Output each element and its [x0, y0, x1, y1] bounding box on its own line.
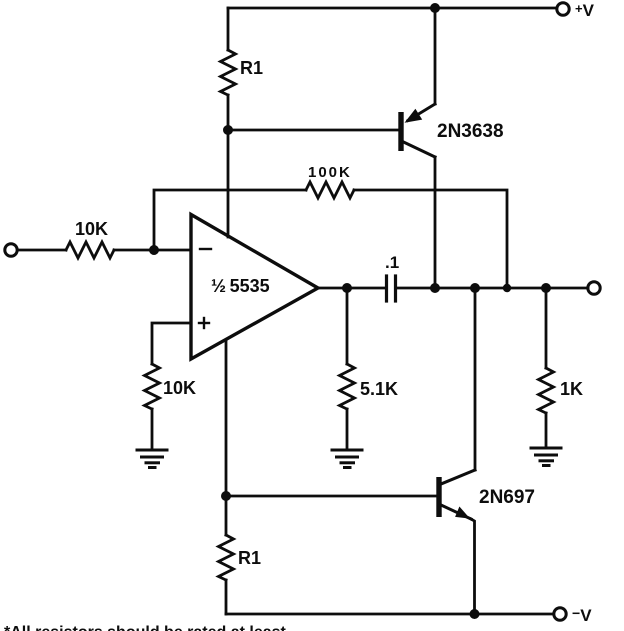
node junction input/feedback [149, 245, 159, 255]
node junction R1 bottom / base [221, 491, 231, 501]
ground (1K) [531, 448, 561, 466]
node junction top rail / Q1 emitter [430, 3, 440, 13]
wire op-amp plus input [152, 323, 190, 364]
wire R1 bottom to rail [225, 580, 228, 614]
node junction feedback [503, 284, 511, 292]
wire op-amp V- pin down [225, 341, 228, 535]
node junction Q2 emitter / rail [470, 609, 480, 619]
op-amp U1 half 5535 [191, 215, 318, 360]
resistor 10K (input) [66, 242, 114, 258]
svg-text:1K: 1K [560, 379, 583, 399]
wire bottom supply rail [226, 613, 553, 616]
node junction Q2 collector [470, 283, 480, 293]
wire 5.1K to ground [346, 409, 349, 449]
op-amp plus sign [199, 318, 209, 328]
svg-text:−V: −V [572, 605, 592, 625]
terminal -V [554, 608, 566, 620]
ground (10K) [137, 450, 167, 468]
svg-text:*All resistors should be rated: *All resistors should be rated at least.… [4, 624, 299, 631]
resistor R1 (bottom) [219, 535, 234, 580]
wire 10K to op-amp minus input [114, 249, 190, 252]
transistor Q2 2N697 [436, 288, 475, 614]
wire 2N3638 base line [228, 129, 398, 132]
node junction output/5.1K [342, 283, 352, 293]
terminal output [588, 282, 600, 294]
op-amp minus sign [200, 248, 211, 250]
node junction R1/base [223, 125, 233, 135]
wire 1K top [545, 288, 548, 368]
svg-text:½ 5535: ½ 5535 [211, 276, 270, 296]
resistor 100K [306, 182, 354, 198]
svg-text:5.1K: 5.1K [360, 379, 398, 399]
wire 100K feedback line left [154, 190, 306, 250]
wire 5.1K top [346, 288, 349, 364]
svg-text:R1: R1 [238, 548, 261, 568]
svg-text:100K: 100K [308, 164, 352, 181]
wire 2N697 base line [226, 495, 436, 498]
wire 10K to ground [151, 409, 154, 449]
capacitor .1 [387, 276, 396, 301]
svg-text:2N697: 2N697 [479, 487, 535, 508]
wire input to 10K [18, 249, 67, 252]
ground (5.1K) [332, 450, 362, 468]
wire 1K to ground [545, 413, 548, 447]
svg-text:.1: .1 [385, 253, 399, 272]
wire 100K right + down to output [354, 190, 507, 288]
resistor 5.1K [340, 364, 355, 409]
terminal input [5, 244, 17, 256]
svg-text:+V: +V [575, 1, 595, 20]
terminal +V [557, 3, 569, 15]
wire op-amp output [318, 287, 385, 290]
wire R1 top to op-amp V+ pin [227, 95, 230, 237]
wire left vertical top segment [227, 8, 230, 50]
resistor R1 (top) [221, 50, 236, 95]
node junction 1K [541, 283, 551, 293]
svg-text:R1: R1 [240, 58, 263, 78]
resistor 10K (to ground) [145, 364, 160, 409]
svg-text:2N3638: 2N3638 [437, 121, 504, 142]
svg-text:10K: 10K [163, 378, 196, 398]
wire top supply rail [228, 7, 556, 10]
node junction cap/Q1 collector [430, 283, 440, 293]
transistor Q1 2N3638 [398, 8, 435, 288]
resistor 1K [539, 368, 554, 413]
svg-text:10K: 10K [75, 219, 108, 239]
wire capacitor to output node [397, 287, 588, 290]
